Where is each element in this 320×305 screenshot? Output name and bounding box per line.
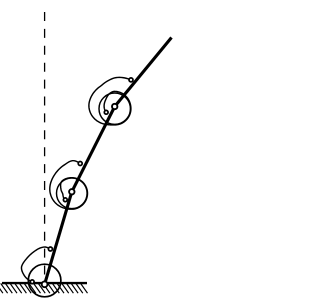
ground hatching [0,283,88,293]
top joint inner spring pin [104,110,108,114]
top joint torsion-spring spiral [89,77,131,125]
middle joint outer spring pin [78,162,82,166]
bottom joint hub [42,281,48,287]
dashed vertical reference line [44,12,46,276]
link 3 (upper link) [115,38,172,107]
middle joint hub [69,189,74,194]
middle joint torsion-spring inner circle [57,178,88,209]
link 1 (base link) [45,192,72,284]
top joint torsion-spring inner circle [99,93,130,124]
middle joint torsion-spring spiral [50,161,88,210]
link 2 (middle link) [72,107,115,192]
top joint hub [112,104,117,109]
middle joint inner spring pin [63,198,67,202]
bottom joint torsion-spring inner circle [28,264,61,297]
top joint outer spring pin [129,78,133,82]
bottom joint outer spring pin [48,247,52,251]
bottom joint torsion-spring spiral [21,247,50,282]
ground line [2,282,87,284]
bottom joint inner spring pin [30,280,34,284]
